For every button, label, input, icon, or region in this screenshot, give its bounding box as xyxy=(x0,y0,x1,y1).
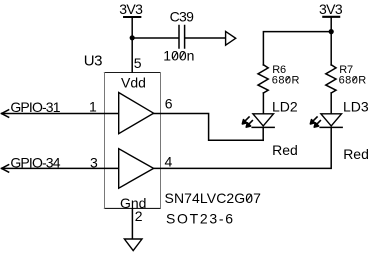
svg-text:Red: Red xyxy=(343,146,369,162)
svg-text:GPIO-34: GPIO-34 xyxy=(10,155,60,171)
svg-text:C39: C39 xyxy=(170,9,194,25)
svg-text:680R: 680R xyxy=(339,74,367,86)
svg-text:3V3: 3V3 xyxy=(119,1,143,17)
svg-text:680R: 680R xyxy=(272,74,300,86)
svg-text:SN74LVC2G07: SN74LVC2G07 xyxy=(165,190,262,206)
svg-text:SOT23-6: SOT23-6 xyxy=(166,210,235,226)
svg-text:100n: 100n xyxy=(163,47,194,63)
svg-text:4: 4 xyxy=(165,154,173,170)
svg-text:3V3: 3V3 xyxy=(319,1,343,17)
svg-text:U3: U3 xyxy=(84,53,102,70)
svg-text:6: 6 xyxy=(165,95,173,111)
svg-text:LD3: LD3 xyxy=(343,99,369,115)
svg-text:5: 5 xyxy=(134,55,142,71)
svg-text:GPIO-31: GPIO-31 xyxy=(10,99,60,115)
svg-text:3: 3 xyxy=(90,155,98,171)
svg-text:Red: Red xyxy=(272,142,298,158)
svg-text:1: 1 xyxy=(89,99,97,115)
svg-text:Vdd: Vdd xyxy=(121,74,146,90)
svg-text:2: 2 xyxy=(135,208,143,224)
svg-text:LD2: LD2 xyxy=(272,99,298,115)
